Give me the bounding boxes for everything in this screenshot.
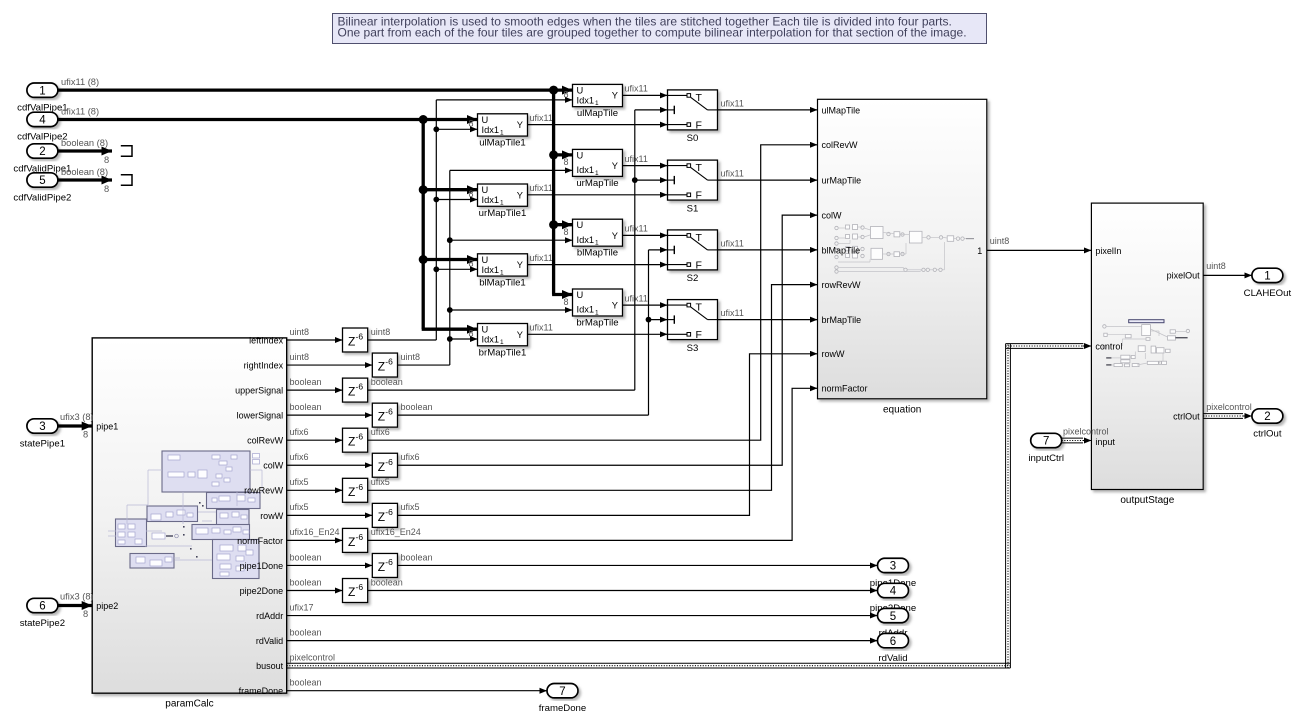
junction dot blMapTile U [549,220,558,229]
svg-text:ufix5: ufix5 [290,502,309,512]
svg-text:-6: -6 [385,357,393,367]
svg-text:uint8: uint8 [371,327,391,337]
svg-text:-6: -6 [356,582,364,592]
svg-text:ufix17: ufix17 [290,602,314,612]
svg-text:colW: colW [263,461,284,471]
svg-text:Y: Y [517,330,523,340]
wire paramCalc upperSignal to delay [287,389,343,391]
svg-text:brMapTile: brMapTile [576,318,618,329]
svg-text:equation: equation [883,404,921,415]
subsystem outputStage [1091,203,1203,506]
svg-text:1: 1 [595,240,599,247]
svg-text:-6: -6 [356,432,364,442]
svg-text:control: control [1095,341,1122,351]
svg-text:S2: S2 [687,273,699,284]
wire rowW to equation [398,354,818,516]
junction dot leftIndex to blMapTile1 [433,266,439,272]
switch S1 [668,160,718,214]
svg-text:8: 8 [563,227,568,237]
switch S2 [668,230,718,284]
svg-text:F: F [696,119,702,131]
svg-text:urMapTile: urMapTile [822,176,862,186]
svg-text:1: 1 [500,339,504,346]
svg-text:1: 1 [595,309,599,316]
wire ctrlOut to outport 2 (pixelcontrol bus) [1203,413,1243,415]
svg-text:Y: Y [612,231,618,241]
svg-text:ctrlOut: ctrlOut [1253,429,1282,440]
svg-text:8: 8 [104,155,109,165]
equation port labels [822,105,983,393]
wire branch to blMapTile U [554,223,573,226]
wire bus vertical from port4 [422,120,425,330]
svg-text:pixelcontrol: pixelcontrol [290,652,336,662]
svg-text:rowRevW: rowRevW [244,486,284,496]
wire cdfValPipe2 bus (port4 to ulMapTile1 U) [58,118,478,121]
annotation box: bilinear interpolation note [333,14,987,44]
svg-text:-6: -6 [385,507,393,517]
svg-text:Z: Z [348,335,355,349]
svg-text:ufix11 (8): ufix11 (8) [61,107,99,117]
paramCalc port labels [96,335,284,696]
wire S0 to equation ulMapTile [718,109,818,111]
svg-text:Z: Z [378,510,385,524]
outport 6 rdValid [878,633,909,647]
delay Z^-6 (pipe1Done) [372,553,397,577]
wire S1 to equation urMapTile [718,179,818,181]
svg-text:4: 4 [890,586,897,598]
wire leftIndex vertical [435,100,437,340]
svg-text:8: 8 [563,157,568,167]
wire rdValid to outport 6 [287,640,878,642]
delay Z^-6 (rowRevW) [343,478,368,502]
wire S3 to equation brMapTile [718,319,818,321]
svg-text:Z: Z [348,435,355,449]
wire leftIndex to ulMapTile1 Idx [436,128,477,130]
svg-text:boolean: boolean [401,552,433,562]
junction dot lowerSignal to S3 [646,317,652,323]
svg-text:Z: Z [378,560,385,574]
wire rightIndex delay to vertical [398,364,450,366]
svg-text:One part from each of the four: One part from each of the four tiles are… [338,26,967,40]
selector blMapTile [573,219,623,259]
wire S2 to equation blMapTile [718,249,818,251]
wire paramCalc rowW to delay [287,514,373,516]
delay Z^-6 (colW) [372,453,397,477]
svg-text:ufix6: ufix6 [371,427,390,437]
wire leftIndex to ulMapTile Idx [436,99,572,101]
wire urMapTile1 Y to switch F [528,194,668,196]
svg-text:T: T [696,232,703,244]
svg-text:ufix11: ufix11 [625,293,648,303]
inport 3 statePipe1 [20,419,65,450]
svg-text:Z: Z [348,485,355,499]
svg-text:boolean (8): boolean (8) [61,138,108,148]
wire busout vertical [1005,344,1007,668]
svg-text:ufix11: ufix11 [721,98,744,108]
svg-text:Idx1: Idx1 [577,305,595,315]
inport 2 cdfValidPipe1 [13,144,71,175]
svg-text:paramCalc: paramCalc [165,699,213,710]
svg-text:7: 7 [559,686,565,698]
svg-text:ufix5: ufix5 [371,477,390,487]
selector ulMapTile1 [478,114,528,149]
svg-text:ufix11: ufix11 [530,323,553,333]
svg-text:Y: Y [517,260,523,270]
svg-text:brMapTile1: brMapTile1 [479,347,527,358]
svg-text:T: T [696,92,703,104]
outport 2 ctrlOut [1252,409,1283,440]
svg-text:-6: -6 [385,457,393,467]
svg-text:ulMapTile1: ulMapTile1 [479,138,526,149]
selector brMapTile1 [478,324,528,359]
svg-text:F: F [696,329,702,341]
svg-text:4: 4 [39,115,46,127]
wire upperSignal to S1 control [635,179,668,181]
selector urMapTile [573,149,623,189]
svg-text:ufix5: ufix5 [290,477,309,487]
svg-text:U: U [577,290,584,300]
svg-text:1: 1 [500,200,504,207]
delay Z^-6 (colRevW) [343,428,368,452]
wire pixelOut to CLAHEOut [1203,274,1252,276]
svg-text:cdfValidPipe2: cdfValidPipe2 [13,192,71,203]
svg-text:pixelcontrol: pixelcontrol [1206,402,1252,412]
svg-text:boolean: boolean [371,377,403,387]
wire paramCalc colRevW to delay [287,439,343,441]
wire inputCtrl to outputStage input (pixelcontrol bus) [1062,437,1083,439]
svg-text:S3: S3 [687,343,699,354]
inport 1 cdfValPipe1 [17,83,68,114]
svg-text:U: U [482,115,489,125]
junction dot port1 bus [549,86,558,95]
svg-text:normFactor: normFactor [237,536,283,546]
svg-text:rdValid: rdValid [256,636,283,646]
svg-text:6: 6 [39,601,45,613]
svg-text:T: T [696,162,703,174]
wire paramCalc rowRevW to delay [287,489,343,491]
wire cdfValidPipe1 (port2) [58,149,112,152]
wire equation out to outputStage pixelIn [987,249,1092,251]
svg-text:5: 5 [890,611,896,623]
svg-text:boolean: boolean [401,402,433,412]
wire pipe2Done to outport 4 [368,590,878,592]
svg-text:ufix5: ufix5 [401,502,420,512]
wire branch to brMapTile1 U [422,328,478,331]
svg-text:2: 2 [1264,411,1270,423]
svg-text:ufix6: ufix6 [401,452,420,462]
svg-text:Idx1: Idx1 [577,95,595,105]
svg-text:Idx1: Idx1 [482,125,500,135]
wire ulMapTile Y to switch T [623,94,668,96]
terminator T1 [121,146,132,156]
wire paramCalc colW to delay [287,464,373,466]
svg-text:U: U [577,220,584,230]
svg-text:uint8: uint8 [401,352,421,362]
wire branch to urMapTile U [554,153,573,156]
junction dot leftIndex to urMapTile1 [433,197,439,203]
svg-text:blMapTile1: blMapTile1 [479,278,526,289]
svg-text:uint8: uint8 [290,327,310,337]
svg-text:rdAddr: rdAddr [256,611,283,621]
junction dot rightIndex to brMapTile1 [447,336,453,342]
svg-text:rightIndex: rightIndex [244,360,284,370]
svg-text:8: 8 [468,259,473,269]
svg-text:statePipe2: statePipe2 [20,618,65,629]
svg-text:blMapTile: blMapTile [577,248,618,259]
wire rdAddr to outport 5 [287,615,878,617]
svg-text:ufix16_En24: ufix16_En24 [290,527,340,537]
paramCalc contents preview [108,451,262,579]
svg-text:ctrlOut: ctrlOut [1173,411,1200,421]
svg-text:boolean: boolean [290,402,322,412]
svg-text:-6: -6 [356,532,364,542]
wire brMapTile1 Y to switch F [528,333,668,335]
wire pipe1Done to outport 3 [398,564,878,566]
wire upperSignal delay to vertical [368,389,635,391]
svg-text:ufix3 (8): ufix3 (8) [60,592,94,602]
svg-text:3: 3 [39,421,45,433]
svg-text:rowW: rowW [260,511,284,521]
svg-text:Z: Z [348,585,355,599]
wire bus vertical from port1 [552,90,555,294]
wire branch to urMapTile1 U [423,188,477,191]
svg-text:Y: Y [612,301,618,311]
svg-text:uint8: uint8 [290,352,310,362]
svg-text:2: 2 [39,146,45,158]
svg-text:ufix11: ufix11 [625,154,648,164]
svg-text:7: 7 [1043,436,1049,448]
svg-text:frameDone: frameDone [539,703,586,714]
svg-text:statePipe1: statePipe1 [20,438,65,449]
svg-text:1: 1 [977,246,982,256]
wire upperSignal vertical [634,110,636,390]
wire paramCalc normFactor to delay [287,539,343,541]
subsystem equation [818,99,987,415]
svg-text:Idx1: Idx1 [482,265,500,275]
svg-text:F: F [696,259,702,271]
wire cdfValPipe1 bus (port1 to ulMapTile U) [58,88,573,91]
outputStage port labels [1095,246,1200,447]
svg-text:8: 8 [468,189,473,199]
svg-text:Y: Y [517,120,523,130]
svg-text:Y: Y [612,161,618,171]
svg-text:boolean: boolean [290,552,322,562]
svg-text:6: 6 [890,636,896,648]
svg-text:-6: -6 [385,407,393,417]
svg-text:Y: Y [612,91,618,101]
junction dot urMapTile U [549,150,558,159]
svg-text:ufix16_En24: ufix16_En24 [371,527,421,537]
outport 4 pipe2Done [878,583,909,597]
wire urMapTile Y to switch T [623,165,668,167]
wire colW to equation [398,215,818,465]
svg-text:pipe1: pipe1 [96,421,118,431]
svg-text:brMapTile: brMapTile [822,315,862,325]
inport 5 cdfValidPipe2 [13,173,71,204]
svg-text:ufix11: ufix11 [721,308,744,318]
selector urMapTile1 [478,184,528,219]
svg-text:ufix11: ufix11 [530,113,553,123]
wire busout to outputStage control [1006,343,1084,345]
svg-text:8: 8 [83,609,88,619]
wire lowerSignal to S2 control [649,249,668,251]
svg-text:U: U [577,150,584,160]
wire paramCalc lowerSignal to delay [287,414,373,416]
delay Z^-6 (leftIndex) [343,328,368,352]
svg-text:inputCtrl: inputCtrl [1028,453,1064,464]
delay Z^-6 (lowerSignal) [372,403,397,427]
wire paramCalc pipe2Done to delay [287,590,343,592]
svg-text:boolean: boolean [290,377,322,387]
wire upperSignal to S0 control [635,109,668,111]
svg-text:ufix3 (8): ufix3 (8) [60,412,94,422]
svg-text:pixelOut: pixelOut [1167,271,1201,281]
junction dot blMapTile1 U [419,255,428,264]
svg-text:ufix11: ufix11 [721,169,744,179]
wire rightIndex to brMapTile1 Idx [450,338,478,340]
svg-text:ufix11: ufix11 [721,238,744,248]
svg-text:F: F [696,190,702,202]
svg-text:pipe2: pipe2 [96,601,118,611]
svg-text:boolean: boolean [290,678,322,688]
svg-text:Y: Y [517,190,523,200]
svg-text:blMapTile: blMapTile [822,245,861,255]
svg-text:1: 1 [1264,271,1270,283]
junction dot upperSignal to S1 [632,177,638,183]
svg-text:1: 1 [500,130,504,137]
svg-text:1: 1 [595,100,599,107]
svg-text:ulMapTile: ulMapTile [577,108,618,119]
selector ulMapTile [573,84,623,119]
wire rightIndex to urMapTile Idx [450,169,573,171]
wire busout horizontal (pixelcontrol bus) [287,662,1011,664]
svg-text:Z: Z [378,360,385,374]
wire leftIndex to blMapTile1 Idx [436,268,477,270]
svg-text:rdValid: rdValid [878,653,907,664]
switch S3 [668,300,718,354]
wire paramCalc rightIndex to delay [287,364,373,366]
svg-text:uint8: uint8 [990,236,1010,246]
outport 3 pipe1Done [878,558,909,572]
svg-text:ulMapTile: ulMapTile [822,105,861,115]
junction dot urMapTile1 U [419,185,428,194]
junction dot leftIndex to ulMapTile1 [433,126,439,132]
wire frameDone to outport 7 [287,690,547,692]
wire blMapTile Y to switch T [623,234,668,236]
terminator T2 [121,175,132,185]
svg-text:-6: -6 [385,557,393,567]
svg-text:8: 8 [468,119,473,129]
delay Z^-6 (rightIndex) [372,353,397,377]
svg-text:uint8: uint8 [1206,261,1226,271]
svg-text:1: 1 [500,270,504,277]
svg-text:outputStage: outputStage [1120,495,1174,506]
svg-text:-6: -6 [356,482,364,492]
junction dot rightIndex to blMapTile [447,237,453,243]
svg-text:Idx1: Idx1 [577,165,595,175]
equation contents preview [835,225,974,274]
wire lowerSignal delay to vertical [398,414,649,416]
wire statePipe2 (port6 to pipe2) [58,604,92,607]
svg-text:boolean: boolean [290,627,322,637]
wire lowerSignal to S3 control [649,319,668,321]
svg-text:U: U [482,185,489,195]
subsystem paramCalc [92,338,287,710]
svg-text:boolean: boolean [371,577,403,587]
delay Z^-6 (rowW) [372,503,397,527]
wire rightIndex to brMapTile Idx [450,309,573,311]
svg-text:Idx1: Idx1 [482,335,500,345]
svg-text:Z: Z [348,535,355,549]
junction dot port4 bus [419,115,428,124]
wire paramCalc pipe1Done to delay [287,564,373,566]
svg-text:busout: busout [256,661,284,671]
wire brMapTile Y to switch T [623,304,668,306]
svg-text:CLAHEOut: CLAHEOut [1244,288,1292,299]
svg-text:ufix11 (8): ufix11 (8) [61,77,99,87]
svg-text:boolean: boolean [290,577,322,587]
svg-text:ufix11: ufix11 [530,253,553,263]
svg-text:U: U [577,86,584,96]
wire branch to blMapTile1 U [423,258,477,261]
svg-text:leftIndex: leftIndex [249,335,284,345]
wire lowerSignal vertical [648,250,650,415]
junction dot rightIndex to brMapTile [447,307,453,313]
outport 1 CLAHEOut [1244,268,1292,299]
svg-text:T: T [696,302,703,314]
inport 7 inputCtrl [1028,433,1064,464]
delay Z^-6 (normFactor) [343,528,368,552]
svg-text:-6: -6 [356,382,364,392]
svg-text:ufix11: ufix11 [530,183,553,193]
wire branch to brMapTile U [552,293,572,296]
svg-text:8: 8 [104,184,109,194]
svg-text:5: 5 [39,175,45,187]
svg-text:U: U [482,255,489,265]
wire paramCalc leftIndex to delay [287,339,343,341]
svg-text:rowW: rowW [822,349,846,359]
svg-text:colRevW: colRevW [822,140,859,150]
svg-text:3: 3 [890,561,896,573]
svg-text:ufix11: ufix11 [625,84,648,94]
svg-text:1: 1 [595,170,599,177]
wire rowRevW to equation [368,285,818,491]
svg-text:8: 8 [563,89,568,99]
switch S0 [668,90,718,144]
svg-text:-6: -6 [356,332,364,342]
svg-text:ufix6: ufix6 [290,427,309,437]
outport 5 rdAddr [878,608,909,622]
svg-text:urMapTile: urMapTile [576,178,618,189]
svg-text:pixelcontrol: pixelcontrol [1063,427,1109,437]
wire blMapTile1 Y to switch F [528,264,668,266]
svg-text:lowerSignal: lowerSignal [237,411,284,421]
svg-text:boolean (8): boolean (8) [61,167,108,177]
svg-text:Idx1: Idx1 [577,235,595,245]
svg-text:input: input [1095,437,1115,447]
svg-text:1: 1 [39,85,45,97]
outputStage contents preview [1103,320,1190,367]
svg-text:Idx1: Idx1 [482,195,500,205]
svg-text:U: U [482,325,489,335]
svg-text:colW: colW [822,211,843,221]
svg-text:S1: S1 [687,203,699,214]
wire statePipe1 (port3 to pipe1) [58,424,92,427]
selector blMapTile1 [478,254,528,289]
inport 6 statePipe2 [20,598,65,629]
svg-text:pipe1Done: pipe1Done [240,561,284,571]
svg-text:ufix11: ufix11 [625,224,648,234]
